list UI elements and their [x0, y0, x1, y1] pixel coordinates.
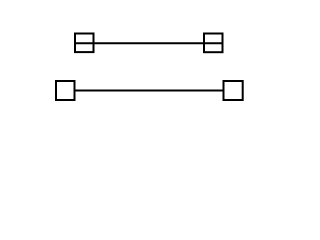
terminal T4 (square, bottom-right) — [224, 81, 243, 100]
terminal T1 (split square, top-left) — [75, 34, 94, 53]
terminal T3 (square, bottom-left) — [56, 81, 75, 100]
wire (bottom link) — [75, 90, 224, 92]
wire (top link) — [94, 42, 205, 44]
terminal T2 (split square, top-right) — [204, 34, 223, 53]
